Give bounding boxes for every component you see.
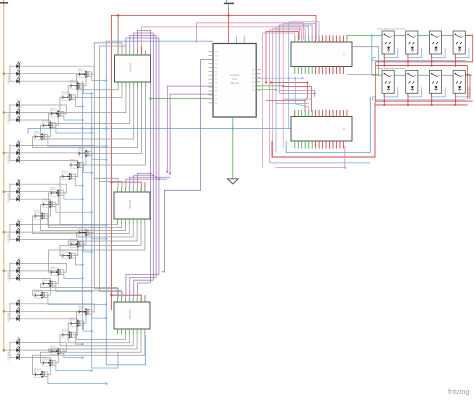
junction rail tap 2 bbox=[3, 111, 6, 114]
LED D16 bbox=[10, 258, 22, 266]
IC ULN2803 U6 bbox=[291, 117, 352, 142]
wire led cathode 13 bbox=[19, 225, 94, 233]
junction teal bbox=[371, 34, 373, 36]
wire bundle top bend bbox=[263, 33, 295, 40]
junction purple bbox=[158, 178, 160, 180]
wire red relay drop 1-1 bbox=[407, 93, 409, 105]
junction purple bbox=[155, 176, 157, 178]
relay K3 bbox=[429, 31, 441, 54]
wire purple arduino d3 bbox=[162, 59, 213, 271]
transistor Q3 bbox=[61, 92, 76, 101]
wire led cathode 23 bbox=[19, 350, 58, 363]
LED D1 bbox=[10, 61, 22, 69]
wire led cathode 11 bbox=[19, 192, 58, 205]
junction rail tap 1 bbox=[3, 72, 6, 75]
wire gate U2.6 Q7 bbox=[78, 87, 142, 153]
junction purple bbox=[149, 172, 151, 174]
transistor Q18 bbox=[33, 290, 48, 299]
wire gate U2.3 Q4 bbox=[49, 87, 130, 123]
LED D7 bbox=[10, 140, 22, 148]
wire cascade gray 1 bbox=[94, 43, 122, 188]
wire bundle top bend bbox=[266, 31, 298, 39]
wire green from power sym bbox=[227, 4, 229, 8]
wire led cathode 9 bbox=[19, 160, 78, 176]
junction rail tap 6 bbox=[3, 270, 6, 273]
junction blue bbox=[91, 370, 93, 372]
wire bundle top bend bbox=[289, 22, 319, 40]
junction blue bbox=[105, 383, 107, 385]
wire led cathode 20 bbox=[19, 311, 86, 323]
node LED cluster 4 anode link bbox=[9, 183, 11, 200]
junction blue bbox=[81, 127, 83, 129]
wire blue relay 0-1 bbox=[408, 48, 422, 58]
svg-text:LED RGB: LED RGB bbox=[8, 272, 10, 281]
wire bundle vertical bbox=[278, 25, 280, 93]
wire gate U4.7 Q24 bbox=[33, 334, 145, 374]
wire red uln bbox=[271, 82, 308, 84]
wire led cathode 15 bbox=[19, 240, 78, 256]
node LED cluster 3 anode link bbox=[9, 144, 11, 161]
transistor Q14 bbox=[69, 239, 84, 248]
wire red left link bbox=[375, 62, 377, 102]
transistor Q15 bbox=[61, 250, 76, 258]
transistor Q8 bbox=[69, 160, 84, 169]
wire led cathode 3 bbox=[19, 81, 78, 97]
wire 5V red bus top bbox=[111, 15, 316, 310]
LED D17 bbox=[10, 266, 22, 274]
wire source Q15 bbox=[75, 258, 82, 265]
wire red to U3 pin bbox=[144, 182, 146, 192]
wire bundle vertical bbox=[275, 27, 277, 153]
wire red relay drop 0-0 bbox=[383, 54, 385, 66]
wire red mid bbox=[283, 86, 311, 88]
LED D10 bbox=[10, 179, 22, 187]
wire red wrap row1 bbox=[465, 35, 472, 62]
wire gate U2.2 Q3 bbox=[60, 87, 126, 112]
wire blue mid bbox=[283, 98, 311, 100]
wire blue relay 0-2 bbox=[431, 48, 445, 58]
junction blue bbox=[105, 238, 107, 240]
svg-text:74HC595: 74HC595 bbox=[131, 62, 133, 72]
transistor Q20 bbox=[69, 318, 84, 327]
junction red bus at arduino vin bbox=[227, 14, 229, 16]
wire red to U6 bbox=[305, 83, 307, 112]
arduino top pins bbox=[236, 36, 238, 44]
wire gate U3.0 Q9 bbox=[60, 177, 118, 225]
junction blue bbox=[82, 105, 84, 107]
wire gate U2.5 Q6 bbox=[33, 87, 138, 147]
node LED cluster 6 anode link bbox=[9, 262, 11, 279]
svg-text:LED RGB: LED RGB bbox=[8, 154, 10, 163]
wire arduino gnd down bbox=[232, 117, 234, 179]
transistor Q22 bbox=[49, 346, 64, 355]
LED D9 bbox=[10, 155, 22, 163]
junction blue bbox=[91, 290, 93, 292]
power symbol above arduino bbox=[224, 2, 234, 4]
wire gate U4.5 Q22 bbox=[49, 334, 138, 351]
IC ULN2803 U5 bbox=[291, 42, 352, 67]
junction blue bbox=[302, 77, 304, 79]
wire source Q23 bbox=[56, 365, 92, 370]
relay K6 bbox=[406, 70, 418, 93]
wire purple to U3 pin2 bbox=[126, 179, 167, 187]
junction blue bbox=[105, 224, 107, 226]
wire gate U3.4 Q13 bbox=[76, 224, 133, 237]
junction blue bbox=[82, 198, 84, 200]
wire purple bus 3 bbox=[134, 33, 154, 280]
ground symbol below arduino bbox=[228, 179, 239, 184]
junction bbox=[275, 89, 277, 91]
junction blue bbox=[105, 303, 107, 305]
transistor Q11 bbox=[41, 199, 56, 208]
wire bundle top bend bbox=[276, 27, 309, 40]
wire source Q22 bbox=[64, 354, 83, 358]
wire blue uln bbox=[256, 77, 302, 79]
wire purple bus 2 bbox=[130, 36, 156, 278]
LED D15 bbox=[10, 234, 22, 242]
wire led cathode 5 bbox=[19, 113, 58, 126]
wire blue jog bbox=[295, 78, 309, 112]
relay K1 bbox=[382, 31, 394, 54]
arduino U1 bbox=[213, 44, 256, 118]
wire red bus row2 a bbox=[376, 100, 473, 102]
junction purple bbox=[152, 174, 154, 176]
wire bundle top bend bbox=[279, 25, 312, 40]
LED D22 bbox=[10, 337, 22, 345]
wire gate U2.1 Q2 bbox=[68, 86, 122, 98]
transistor Q6 bbox=[33, 132, 48, 141]
wire GND blue bus bbox=[106, 41, 213, 365]
svg-text:LED RGB: LED RGB bbox=[8, 233, 10, 242]
svg-text:Chave dupla marrom/marrom: Chave dupla marrom/marrom bbox=[377, 67, 406, 70]
transistor Q12 bbox=[33, 211, 48, 220]
transistor Q21 bbox=[61, 330, 76, 339]
transistor Q16 bbox=[49, 267, 64, 276]
junction blue bbox=[288, 77, 290, 79]
wire red to U4 vcc bbox=[111, 295, 141, 302]
relay K2 bbox=[406, 31, 418, 54]
node LED cluster 5 anode link bbox=[9, 224, 11, 241]
ground symbol top-left bbox=[0, 2, 8, 4]
wire blue bus 3 bbox=[92, 94, 118, 369]
junction blue bbox=[91, 211, 93, 213]
wire source Q16 bbox=[64, 275, 83, 279]
junction rail tap 3 bbox=[3, 152, 6, 155]
LED D3 bbox=[10, 76, 22, 84]
transistor Q10 bbox=[49, 188, 64, 197]
wire source Q3 bbox=[75, 100, 82, 107]
wire gate U3.2 Q11 bbox=[41, 205, 126, 231]
wire pink data 1 bbox=[142, 27, 300, 51]
wire bundle vertical bbox=[272, 28, 274, 157]
wire led cathode 14 bbox=[19, 232, 86, 244]
wire blue row2 bbox=[373, 99, 467, 101]
junction blue bbox=[82, 277, 84, 279]
wire red bus row1 a bbox=[376, 61, 473, 63]
wire green a4 bbox=[256, 85, 283, 87]
wire purple to U3 pin3 bbox=[130, 177, 170, 187]
wire purple to U3 pin5 bbox=[138, 173, 151, 187]
wire red relay drop 1-0 bbox=[383, 93, 385, 105]
LED D11 bbox=[10, 186, 22, 194]
wire led cathode 8 bbox=[19, 153, 86, 165]
wire gate U3.5 Q14 bbox=[68, 224, 137, 244]
junction purple bbox=[314, 92, 316, 94]
wire source Q13 bbox=[92, 235, 107, 239]
wire blue relay 1-3 bbox=[455, 87, 469, 97]
junction blue bbox=[82, 119, 84, 121]
wire led cathode 21 bbox=[19, 319, 78, 335]
LED D2 bbox=[10, 68, 22, 76]
wire gate U3.1 Q10 bbox=[49, 193, 122, 228]
svg-text:Chave dupla marrom/marrom: Chave dupla marrom/marrom bbox=[377, 28, 406, 31]
wire purple bus 4 bbox=[138, 30, 151, 283]
transistor Q5 bbox=[41, 120, 56, 129]
node LED cluster 8 anode link bbox=[9, 342, 11, 359]
relay K7 bbox=[429, 70, 441, 93]
junction blue bbox=[294, 77, 296, 79]
wire pink below U6 bbox=[275, 146, 344, 168]
junction blue bbox=[82, 343, 84, 345]
junction blue bbox=[105, 317, 107, 319]
wire led cathode 6 bbox=[19, 120, 50, 137]
wire blue row1b bbox=[373, 58, 377, 61]
junction blue bbox=[82, 185, 84, 187]
wire purple u5 bbox=[279, 90, 315, 97]
junction blue bbox=[91, 172, 93, 174]
LED D19 bbox=[10, 298, 22, 306]
transistor Q4 bbox=[49, 109, 64, 118]
wire led cathode 19 bbox=[19, 304, 94, 312]
wire source Q4 bbox=[64, 116, 83, 120]
transistor Q7 bbox=[77, 148, 92, 157]
wire blue gnd to U5 bbox=[28, 129, 291, 134]
wire source Q24 bbox=[48, 377, 106, 384]
wire gate U3.7 Q16 bbox=[49, 224, 145, 272]
IC 74HC595 U4 bbox=[114, 302, 150, 329]
wire cascade gray 2 bbox=[100, 46, 126, 188]
wire source Q21 bbox=[75, 337, 82, 344]
wire green relay row2 bbox=[372, 74, 472, 76]
wire red mid2 bbox=[266, 100, 305, 102]
wire bundle top bend bbox=[273, 28, 306, 40]
junction blue bbox=[91, 127, 93, 129]
junction blue bbox=[105, 127, 107, 129]
transistor Q1 bbox=[77, 69, 92, 78]
wire purple from arduino d10 bbox=[167, 86, 213, 172]
transistor Q23 bbox=[41, 358, 56, 367]
LED D13 bbox=[10, 219, 22, 227]
junction blue bbox=[232, 127, 234, 129]
wire red relay drop 1-3 bbox=[454, 93, 456, 105]
wire source Q10 bbox=[64, 195, 83, 199]
svg-text:74HC595: 74HC595 bbox=[130, 199, 132, 209]
junction red bbox=[306, 82, 308, 84]
LED D20 bbox=[10, 306, 22, 314]
wire bundle top bend bbox=[269, 30, 301, 40]
junction red bbox=[265, 82, 267, 84]
LED D4 bbox=[10, 100, 22, 108]
transistor Q13 bbox=[77, 227, 92, 236]
wire blue relay 1-0 bbox=[384, 87, 398, 97]
wire led cathode 17 bbox=[19, 271, 58, 284]
wire blue row1 bbox=[373, 60, 467, 62]
wire teal link bbox=[371, 36, 373, 76]
wire bundle vertical bbox=[288, 22, 290, 129]
junction blue bbox=[82, 264, 84, 266]
wire gate U4.3 Q20 bbox=[68, 323, 129, 342]
wire purple to U4 pin4 bbox=[134, 280, 154, 297]
wire source Q18 bbox=[48, 298, 106, 305]
junction rail tap 7 bbox=[3, 310, 6, 313]
IC 74HC595 U2 bbox=[115, 55, 151, 82]
junction blue bbox=[91, 330, 93, 332]
wire gate U4.4 Q21 bbox=[60, 334, 133, 345]
junction red bus bbox=[117, 14, 119, 16]
wire led cathode 4 bbox=[19, 105, 66, 114]
wire green arduino d12 bbox=[151, 98, 213, 100]
wire red to U3 vcc bbox=[111, 182, 141, 192]
wire blue mid2 bbox=[276, 103, 309, 105]
junction red bbox=[270, 82, 272, 84]
wire source Q12 bbox=[48, 218, 106, 225]
node LED cluster 1 anode link bbox=[9, 65, 11, 82]
svg-text:LED RGB: LED RGB bbox=[8, 312, 10, 321]
wire blue relay 1-2 bbox=[431, 87, 445, 97]
wire red relay drop 0-1 bbox=[407, 54, 409, 66]
wire red to U6 b bbox=[310, 87, 312, 112]
wire red to U4 pin bbox=[144, 295, 146, 302]
transistor Q24 bbox=[33, 369, 48, 378]
junction rail tap 8 bbox=[3, 349, 6, 352]
wire led cathode 12 bbox=[19, 199, 50, 216]
wire source Q5 bbox=[56, 128, 92, 133]
wire led cathode 7 bbox=[19, 145, 94, 153]
wire blue relay 0-3 bbox=[455, 48, 469, 58]
junction blue bbox=[105, 145, 107, 147]
wire led cathode 24 bbox=[19, 358, 50, 375]
junction blue bbox=[91, 132, 93, 134]
wire bundle vertical bbox=[262, 33, 264, 168]
wire red link rows bbox=[467, 66, 469, 100]
LED D5 bbox=[10, 107, 22, 115]
wire source Q1 bbox=[92, 77, 107, 81]
svg-text:(Rev3): (Rev3) bbox=[230, 81, 239, 85]
junction blue bbox=[105, 159, 107, 161]
relay K5 bbox=[382, 70, 394, 93]
wire source Q7 bbox=[92, 156, 107, 160]
wire gate U4.0 Q17 bbox=[41, 284, 118, 298]
wire source Q17 bbox=[56, 286, 92, 291]
junction red bbox=[110, 181, 112, 183]
junction purple bbox=[169, 172, 171, 174]
junction green bbox=[149, 97, 151, 99]
svg-text:LED RGB: LED RGB bbox=[8, 351, 10, 360]
wire purple to U4 pin3 bbox=[130, 277, 156, 297]
wire cascade gray 3 bbox=[94, 178, 118, 297]
wire red relay drop 0-3 bbox=[454, 54, 456, 66]
LED D23 bbox=[10, 345, 22, 353]
arduino left pins bbox=[209, 51, 214, 53]
LED D21 bbox=[10, 313, 22, 321]
wire red to U2 pin16 bbox=[117, 15, 119, 55]
wire red stub U2 bbox=[140, 47, 142, 56]
wire red wrap row2 bbox=[465, 75, 470, 100]
wire gate U3.3 Q12 bbox=[33, 216, 130, 234]
wire source Q14 bbox=[84, 247, 92, 252]
wire led cathode 16 bbox=[19, 263, 66, 272]
relay K8 bbox=[453, 70, 465, 93]
transistor Q9 bbox=[61, 171, 76, 180]
junction blue bbox=[91, 92, 93, 94]
wire purple to U4 pin5 bbox=[138, 283, 151, 298]
transistor Q19 bbox=[77, 307, 92, 316]
IC 74HC595 U3 bbox=[114, 192, 150, 219]
svg-text:LED RGB: LED RGB bbox=[8, 114, 10, 123]
wire led cathode 2 bbox=[19, 74, 86, 86]
wire led cathode 18 bbox=[19, 278, 50, 295]
wire blue relay 0-0 bbox=[384, 48, 398, 58]
wire blue bus below U6 bbox=[286, 97, 370, 153]
wire blue relay 1-1 bbox=[408, 87, 422, 97]
arduino right pins bbox=[256, 69, 261, 71]
svg-text:fritzing: fritzing bbox=[448, 387, 470, 396]
wire gate U4.6 Q23 bbox=[41, 334, 142, 363]
transistor Q17 bbox=[41, 278, 56, 287]
wire blue bus 2 bbox=[82, 81, 84, 330]
wire bundle top bend bbox=[283, 23, 315, 39]
svg-text:LED RGB: LED RGB bbox=[8, 193, 10, 202]
wire source Q11 bbox=[56, 207, 92, 212]
wire pink data 2 bbox=[197, 23, 304, 43]
wire green a5 bbox=[256, 89, 276, 91]
wire purple to U4 pin2 bbox=[126, 275, 159, 298]
wire source Q8 bbox=[84, 167, 92, 172]
wire led cathode 1 bbox=[19, 66, 94, 74]
wire led cathode 10 bbox=[19, 184, 66, 193]
wire red vin bbox=[227, 8, 229, 44]
junction blue bbox=[105, 79, 107, 81]
LED D18 bbox=[10, 273, 22, 281]
relay K4 bbox=[453, 31, 465, 54]
wire gate U4.2 Q19 bbox=[76, 312, 125, 340]
junction bbox=[282, 85, 284, 87]
wire purple bus 1 bbox=[126, 38, 159, 275]
wire source Q19 bbox=[92, 314, 107, 318]
wire source Q6 bbox=[48, 139, 106, 146]
transistor Q2 bbox=[69, 81, 84, 90]
wire source Q9 bbox=[75, 179, 82, 186]
LED D6 bbox=[10, 115, 22, 123]
wire gate U2.4 Q5 bbox=[41, 87, 134, 139]
wire red bus row1 b bbox=[376, 65, 468, 67]
LED D12 bbox=[10, 194, 22, 202]
junction rail tap 4 bbox=[3, 190, 6, 193]
wire gate U2.0 Q1 bbox=[76, 74, 118, 90]
wire blue row2b bbox=[373, 97, 377, 100]
wire +V orange rail bbox=[3, 4, 5, 352]
wire red bus below U6 bbox=[272, 102, 375, 157]
wire red bus row2 b bbox=[376, 104, 468, 106]
wire gate U3.6 Q15 bbox=[60, 224, 141, 255]
wire source Q2 bbox=[84, 88, 92, 93]
wire purple from arduino d11 bbox=[170, 94, 213, 173]
LED D24 bbox=[10, 352, 22, 360]
svg-text:74HC595: 74HC595 bbox=[130, 309, 132, 319]
svg-text:LED RGB: LED RGB bbox=[8, 75, 10, 84]
wire green relay row1 bbox=[347, 36, 472, 41]
node LED cluster 7 anode link bbox=[9, 303, 11, 320]
